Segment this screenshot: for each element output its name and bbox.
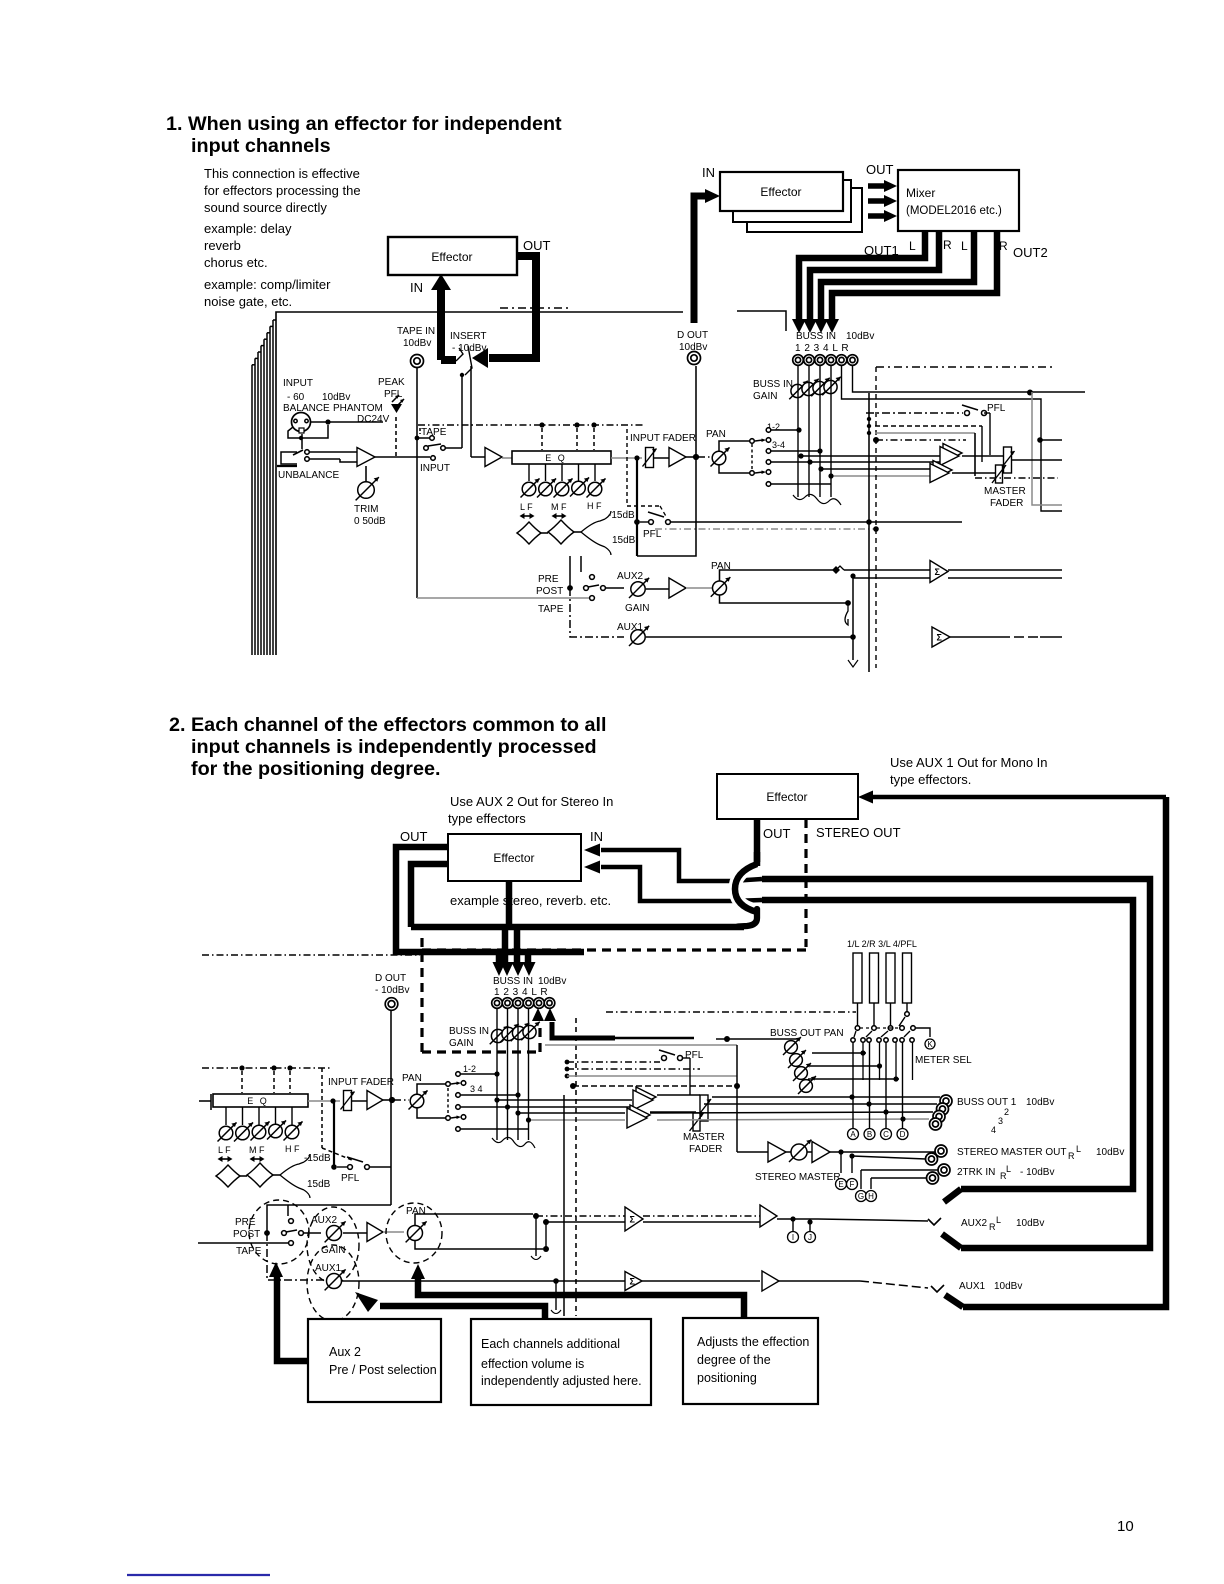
svg-text:PFL: PFL (643, 529, 662, 540)
wire AUX1 chevron join (945, 1295, 963, 1307)
svg-text:E Q: E Q (545, 453, 567, 463)
EQ block (section2) (199, 1100, 211, 1102)
wire A2 to EQ (502, 457, 512, 459)
LED peak indicator (391, 404, 402, 413)
svg-text:1 2 3 4 L R: 1 2 3 4 L R (795, 343, 849, 354)
dash-dot rail top left (section2) (202, 954, 420, 956)
svg-text:PRE: PRE (235, 1217, 256, 1228)
master fader VR4 (section2) (657, 1094, 700, 1096)
svg-text:R: R (943, 238, 952, 252)
svg-text:AUX2: AUX2 (961, 1218, 988, 1229)
AUX2 stereo out pair wires (948, 569, 1062, 571)
wire to D OUT jack (section1) (637, 366, 696, 556)
channel boundary corner right of D OUT (737, 311, 786, 331)
dashed link between switch poles (751, 444, 753, 470)
svg-text:- 10dBv: - 10dBv (1020, 1167, 1054, 1178)
AUX2 sum amplifier A7 (930, 561, 948, 583)
svg-text:Σ: Σ (630, 1214, 636, 1224)
wire BUSS IN R to master (853, 366, 1086, 392)
svg-text:10dBv: 10dBv (1026, 1097, 1054, 1108)
svg-text:2TRK IN: 2TRK IN (957, 1167, 995, 1178)
PAN output wires to 1-2/3-4 switch (719, 441, 750, 451)
BUSS IN jacks J11-J16 (section2) (492, 998, 503, 1009)
wire hop AUX2 R (845, 603, 848, 625)
svg-text:INPUT FADER: INPUT FADER (630, 433, 696, 444)
master feed wires (875, 425, 982, 427)
junction dots column (section2) (565, 1060, 570, 1065)
svg-text:K: K (927, 1040, 933, 1049)
svg-text:3: 3 (998, 1116, 1003, 1126)
svg-text:FADER: FADER (990, 498, 1023, 509)
callout box B3: adjusts the effection degree (683, 1318, 818, 1404)
circled letters A B C D (848, 1129, 859, 1140)
svg-text:INPUT FADER: INPUT FADER (328, 1077, 394, 1088)
svg-text:INPUT: INPUT (283, 378, 313, 389)
svg-text:positioning: positioning (697, 1371, 757, 1385)
wire thick mono return to BUSS IN R (552, 1022, 615, 1038)
torn squiggle (section2) (492, 1137, 535, 1148)
svg-text:sound source directly: sound source directly (204, 200, 327, 215)
wire dash to PAN (700, 456, 712, 458)
svg-text:10dBv: 10dBv (1096, 1147, 1124, 1158)
callout arrow to AUX2 pan pot (418, 1278, 744, 1318)
wire thick mixer OUT1 L to BUSS IN 1 (799, 231, 925, 320)
wire BUSS IN L to master (842, 366, 1063, 511)
svg-text:E Q: E Q (247, 1096, 269, 1106)
svg-text:IN: IN (410, 280, 423, 295)
wire EQ to fader (section2) (308, 1100, 340, 1102)
wire thick stub from U3 bottom to mono bus (506, 881, 513, 927)
svg-text:STEREO MASTER OUT: STEREO MASTER OUT (957, 1147, 1066, 1158)
BUSS OUT 1 jacks (940, 1095, 952, 1107)
wires to buss out jacks (712, 1096, 940, 1098)
BUSS IN GAIN pots (section2) (490, 1026, 508, 1044)
wire thick from D OUT up into U2 IN (694, 196, 706, 323)
svg-text:- 10dBv: - 10dBv (375, 985, 409, 996)
buss in vertical feed wires (797, 366, 799, 497)
svg-text:STEREO OUT: STEREO OUT (816, 825, 901, 840)
svg-text:METER SEL: METER SEL (915, 1055, 972, 1066)
svg-text:L F: L F (218, 1145, 231, 1155)
svg-text:OUT: OUT (523, 238, 551, 253)
sum amplifier A4 (master L) (943, 444, 962, 463)
circled letters I J (792, 1219, 794, 1231)
svg-text:OUT: OUT (400, 829, 428, 844)
callout box B2: each channels additional (471, 1319, 651, 1405)
svg-text:PFL: PFL (341, 1173, 360, 1184)
sum amplifier A11 (buss R) (630, 1105, 650, 1125)
svg-text:TRIM: TRIM (354, 504, 378, 515)
svg-text:Pre / Post selection: Pre / Post selection (329, 1363, 437, 1377)
svg-text:E: E (838, 1180, 843, 1189)
AUX2 pan output wires (section2) (415, 1214, 533, 1226)
PAN out wires to assign switch (section2) (417, 1084, 446, 1094)
svg-text:M F: M F (249, 1145, 265, 1155)
svg-text:I: I (792, 1233, 794, 1242)
EQ control rail (section2) (202, 1067, 330, 1069)
svg-text:L: L (1006, 1164, 1011, 1174)
svg-text:TAPE IN: TAPE IN (397, 326, 435, 337)
svg-text:type effectors: type effectors (448, 811, 526, 826)
wire thick U3 OUT lines to BUSS IN arrows (396, 847, 499, 962)
svg-text:OUT: OUT (866, 162, 894, 177)
EQ input amplifier A2 (485, 448, 502, 467)
master fader VR2 (962, 455, 1003, 457)
AUX2 sum amp A15 (section2) (625, 1207, 643, 1231)
sum amplifier A10 (buss L) (636, 1087, 656, 1107)
svg-text:L: L (1076, 1144, 1081, 1154)
channel PFL switch (section2) (333, 1101, 335, 1167)
wire amp out to tape/input switch (375, 456, 430, 458)
AUX1 sum amplifier A8 (932, 627, 950, 647)
svg-text:Effector: Effector (493, 851, 534, 865)
svg-text:BUSS IN: BUSS IN (449, 1026, 489, 1037)
svg-text:L: L (996, 1215, 1001, 1225)
2TRK IN jacks (938, 1164, 950, 1176)
svg-text:0 50dB: 0 50dB (354, 516, 386, 527)
stereo master out wires (830, 1151, 936, 1153)
svg-text:IN: IN (590, 829, 603, 844)
svg-text:3-4: 3-4 (772, 440, 785, 450)
svg-text:INPUT: INPUT (420, 463, 450, 474)
svg-text:TAPE: TAPE (538, 604, 564, 615)
svg-text:10dBv: 10dBv (403, 338, 431, 349)
master vertical bus (868, 393, 870, 672)
svg-text:type effectors.: type effectors. (890, 772, 971, 787)
svg-text:PAN: PAN (706, 429, 726, 440)
svg-text:A: A (850, 1130, 856, 1139)
wire thick mixer OUT2 L to BUSS IN 3 (821, 231, 974, 320)
svg-text:BUSS IN: BUSS IN (753, 379, 793, 390)
svg-text:C: C (883, 1130, 889, 1139)
svg-text:IN: IN (702, 165, 715, 180)
wires XLR to balance switch (288, 425, 328, 438)
wire fader out junction (686, 456, 700, 458)
svg-text:reverb: reverb (204, 238, 241, 253)
AUX1 out amp A14 (section2) (762, 1271, 779, 1291)
AUX1 sum amp A13 (section2) (625, 1272, 642, 1291)
svg-text:10dBv: 10dBv (994, 1281, 1022, 1292)
svg-text:PRE: PRE (538, 574, 559, 585)
svg-text:example: comp/limiter: example: comp/limiter (204, 277, 331, 292)
svg-text:D OUT: D OUT (375, 973, 406, 984)
svg-text:G: G (858, 1192, 864, 1201)
svg-text:input channels is independentl: input channels is independently processe… (191, 736, 597, 758)
buss out pan contact grid (852, 1042, 854, 1128)
svg-text:PFL: PFL (685, 1050, 704, 1061)
svg-text:D: D (900, 1130, 906, 1139)
callout arrow to pre/post switch (277, 1276, 308, 1361)
wire EQ out to fader (611, 457, 642, 459)
sum amplifier A5 (master R) (933, 461, 952, 480)
svg-text:PAN: PAN (406, 1206, 426, 1217)
svg-text:BUSS IN: BUSS IN (796, 331, 836, 342)
svg-text:GAIN: GAIN (449, 1038, 473, 1049)
dashed ellipse around AUX2 gain (307, 1207, 359, 1283)
master output stubs (1041, 439, 1062, 441)
wire phantom feed to LED (310, 421, 383, 423)
svg-text:STEREO MASTER: STEREO MASTER (755, 1172, 841, 1183)
wire thick mixer OUT1 R to BUSS IN 2 (810, 231, 939, 320)
svg-text:R: R (989, 1222, 996, 1232)
svg-text:Effector: Effector (760, 185, 801, 199)
post fader amp A9 (section2) (352, 1100, 367, 1102)
junction dots on buss rows (849, 1094, 854, 1099)
channel PFL switch S5 (636, 458, 638, 556)
PAN pot R7 (711, 447, 730, 466)
callout box B1: Aux2 pre/post selection (308, 1319, 441, 1402)
dashed ellipse around pre/post switch (249, 1200, 309, 1264)
svg-text:chorus etc.: chorus etc. (204, 255, 268, 270)
BUSS IN GAIN pots R8-R11 (789, 381, 807, 399)
svg-text:10dBv: 10dBv (322, 392, 350, 403)
EQ pots R2-R6 (528, 464, 530, 481)
svg-text:H: H (868, 1192, 874, 1201)
svg-text:GAIN: GAIN (625, 603, 649, 614)
effector box U4 (mono) (717, 774, 858, 819)
AUX1 bus wire (section2) (342, 1280, 625, 1282)
wire dashed LED to signal path (395, 417, 397, 456)
dashed drops from rail to EQ (541, 428, 543, 450)
svg-text:for the positioning degree.: for the positioning degree. (191, 758, 440, 780)
svg-text:1/L 2/R 3/L 4/PFL: 1/L 2/R 3/L 4/PFL (847, 939, 917, 949)
svg-text:Mixer: Mixer (906, 186, 935, 200)
svg-text:independently adjusted here.: independently adjusted here. (481, 1374, 642, 1388)
svg-text:Each channels additional: Each channels additional (481, 1337, 620, 1351)
wire STEREO OUT dashed from U4 (804, 819, 807, 947)
wire thick OUT from U1 down to insert return (489, 256, 536, 358)
bus row wires (771, 429, 799, 431)
bus rows (section2) (461, 1073, 497, 1075)
effector box U3 (stereo) (448, 834, 581, 881)
wire insert send riser (461, 377, 463, 448)
svg-text:OUT: OUT (763, 826, 791, 841)
svg-text:AUX1: AUX1 (959, 1281, 986, 1292)
AUX2 amplifier A6 (646, 588, 669, 590)
input amplifier A1 (310, 451, 357, 453)
wire thick U4 OUT down (mono feed) (754, 819, 761, 862)
svg-text:1. When using an effector for: 1. When using an effector for independen… (166, 113, 562, 135)
wire U4 OUT bridge arc over stereo bus (735, 867, 752, 909)
PFL bus wire (channel) (670, 521, 869, 523)
svg-text:This connection is effective: This connection is effective (204, 166, 360, 181)
insert jack switch S2 (456, 348, 463, 361)
EQ curve symbols (517, 522, 541, 544)
svg-text:example: delay: example: delay (204, 221, 292, 236)
svg-text:BUSS OUT PAN: BUSS OUT PAN (770, 1028, 844, 1039)
wire switch to EQ amp (445, 447, 462, 449)
input fader VR1 (643, 448, 657, 468)
svg-text:noise gate, etc.: noise gate, etc. (204, 294, 292, 309)
svg-text:D OUT: D OUT (677, 330, 708, 341)
svg-text:Σ: Σ (630, 1276, 636, 1286)
svg-text:3 4: 3 4 (470, 1084, 483, 1094)
wire TAPE IN down to tape bus (416, 368, 418, 598)
svg-text:10dBv: 10dBv (846, 331, 874, 342)
svg-text:Aux 2: Aux 2 (329, 1345, 361, 1359)
buss vertical feeds (section2) (496, 1009, 498, 1140)
channel card stack (section 1) (276, 312, 683, 655)
svg-text:input channels: input channels (191, 135, 331, 157)
meter select switch (857, 1003, 859, 1025)
svg-text:BALANCE: BALANCE (283, 403, 330, 414)
BUSS IN jacks J3-J8 (793, 355, 804, 366)
AUX2 pan out wires (720, 570, 837, 581)
dash-dot rail above buss out pan (606, 1011, 856, 1013)
svg-text:for effectors processing the: for effectors processing the (204, 183, 361, 198)
svg-text:2: 2 (1004, 1107, 1009, 1117)
svg-text:(MODEL2016 etc.): (MODEL2016 etc.) (906, 205, 1002, 217)
2TRK in wires + EFGH (861, 1169, 938, 1171)
stereo master out jacks (935, 1145, 947, 1157)
svg-text:H F: H F (587, 501, 602, 511)
tape return bus wire (417, 597, 589, 599)
svg-text:F: F (850, 1180, 855, 1189)
svg-text:AUX2: AUX2 (617, 571, 644, 582)
svg-text:L: L (909, 239, 916, 253)
svg-text:B: B (867, 1130, 872, 1139)
wire thick U3 IN line 2 (from long bus) (601, 867, 731, 901)
svg-text:Use AUX 2 Out for Stereo In: Use AUX 2 Out for Stereo In (450, 794, 613, 809)
bus rows to sum amps (section2) (497, 1099, 632, 1101)
svg-text:POST: POST (536, 586, 563, 597)
svg-text:AUX1: AUX1 (315, 1263, 342, 1274)
svg-text:POST: POST (233, 1229, 260, 1240)
svg-text:4: 4 (991, 1125, 996, 1135)
svg-text:FADER: FADER (689, 1144, 722, 1155)
svg-text:15dB: 15dB (307, 1179, 331, 1190)
input fader VR3 (section2) (341, 1091, 355, 1111)
wire thick buss arrows 3 and 4 (512, 962, 525, 976)
master section dash-dot boundary (876, 366, 1053, 368)
svg-text:MASTER: MASTER (683, 1132, 725, 1143)
svg-text:Σ: Σ (935, 567, 941, 577)
svg-text:Σ: Σ (937, 632, 943, 642)
D OUT riser (section2) (390, 1011, 392, 1205)
AUX2 amp A12 (section2) (343, 1232, 367, 1234)
svg-text:10: 10 (1117, 1518, 1134, 1535)
footer blue rule (127, 1574, 270, 1576)
svg-text:L: L (961, 239, 968, 253)
svg-text:OUT2: OUT2 (1013, 245, 1048, 260)
dashed vertical (section2 master boundary) (575, 1018, 577, 1316)
wire thick IN arrow into U1 from insert jack (437, 288, 445, 360)
TRIM pot R1 (365, 466, 367, 483)
svg-text:10dBv: 10dBv (538, 976, 566, 987)
svg-text:-15dB: -15dB (608, 510, 635, 521)
wire thick mono bus line (411, 924, 744, 931)
svg-text:PEAK: PEAK (378, 377, 405, 388)
svg-text:PHANTOM: PHANTOM (333, 403, 383, 414)
wire insert return riser (470, 366, 472, 457)
svg-text:R: R (1068, 1151, 1075, 1161)
svg-text:PAN: PAN (402, 1073, 422, 1084)
AUX1 junction (850, 634, 856, 640)
wire thick U3 IN line 1 (from long bus) (601, 850, 731, 881)
svg-text:1-2: 1-2 (463, 1064, 476, 1074)
dash-dot AUX boundary (655, 528, 876, 530)
effector stack U2 (channel effectors, top right) (747, 188, 862, 232)
svg-text:Effector: Effector (431, 250, 472, 264)
EQ curve symbols (section2) (216, 1165, 240, 1187)
wire thick AUX1 return into U4 (872, 795, 1166, 800)
svg-text:J: J (808, 1233, 812, 1242)
svg-text:-15dB: -15dB (304, 1153, 331, 1164)
wire thick mixer OUT2 R to BUSS IN 4 (832, 231, 997, 320)
svg-text:15dB: 15dB (612, 535, 636, 546)
mixer block (MODEL2016) (898, 170, 1019, 231)
balance/unbalance switch S1 (305, 450, 310, 455)
svg-text:PFL: PFL (384, 389, 403, 400)
svg-text:Effector: Effector (766, 790, 807, 804)
svg-text:INSERT: INSERT (450, 331, 487, 342)
arrows U2 OUT to mixer (3x) (868, 183, 884, 189)
unbalance jack symbol (281, 452, 297, 464)
svg-text:L F: L F (520, 502, 533, 512)
svg-text:2. Each channel of the effecto: 2. Each channel of the effectors common … (169, 714, 606, 736)
effector box U1 (insert effector) (388, 237, 517, 275)
EQ block (512, 451, 611, 464)
wires bus rows to master amps (801, 455, 942, 457)
AUX2 out amp A16 (section2) (760, 1205, 777, 1227)
svg-text:DC24V: DC24V (357, 414, 390, 425)
wire AUX down arrow (852, 576, 854, 660)
dashed ellipse around AUX2 pan (386, 1203, 442, 1263)
pfl feed rows (section2) (567, 1061, 660, 1063)
svg-text:1 2 3 4 L R: 1 2 3 4 L R (494, 987, 548, 998)
svg-text:degree of the: degree of the (697, 1353, 771, 1367)
svg-text:R: R (999, 239, 1008, 253)
wire thick AUX1 send right side (963, 797, 1166, 1307)
svg-text:example stereo, reverb. etc.: example stereo, reverb. etc. (450, 893, 611, 908)
svg-text:10dBv: 10dBv (1016, 1218, 1044, 1229)
torn continuation squiggle (793, 494, 841, 505)
svg-text:GAIN: GAIN (753, 391, 777, 402)
post fader amplifier A3 (654, 457, 669, 459)
svg-text:MASTER: MASTER (984, 486, 1026, 497)
svg-text:- 60: - 60 (287, 392, 305, 403)
dashed ellipse around AUX1 (307, 1245, 359, 1321)
XLR input connector J1 (292, 413, 311, 432)
dash-dot control rail above EQ (418, 424, 643, 426)
svg-text:M F: M F (551, 502, 567, 512)
EQ pots (section2) (225, 1107, 227, 1125)
callout arrow to AUX1 gain pot (380, 1306, 545, 1319)
svg-text:H F: H F (285, 1144, 300, 1154)
svg-text:UNBALANCE: UNBALANCE (278, 470, 339, 481)
svg-text:effection volume is: effection volume is (481, 1357, 584, 1371)
tape bus wire (section2) (198, 1242, 288, 1244)
svg-text:BUSS IN: BUSS IN (493, 976, 533, 987)
stereo master chain (545, 1044, 737, 1046)
svg-text:Use AUX 1 Out for Mono In: Use AUX 1 Out for Mono In (890, 755, 1048, 770)
svg-text:Adjusts the effection: Adjusts the effection (697, 1335, 809, 1349)
